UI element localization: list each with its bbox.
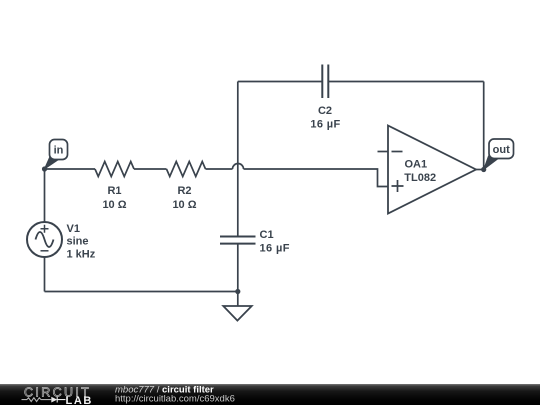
node out dot: [481, 167, 486, 172]
svg-text:16 µF: 16 µF: [260, 243, 290, 255]
ground: [223, 306, 251, 321]
wire hop to op-amp plus input: [244, 169, 389, 187]
svg-text:in: in: [54, 145, 64, 157]
wire op-amp output to node out: [476, 169, 484, 171]
wire stub op-amp minus input: [378, 151, 389, 153]
op-amp minus glyph: [392, 151, 403, 153]
wire from node in to R1: [45, 168, 96, 170]
svg-text:10 Ω: 10 Ω: [172, 199, 196, 211]
wire node to ground: [237, 292, 239, 307]
svg-text:http://circuitlab.com/c69xdk6: http://circuitlab.com/c69xdk6: [115, 393, 235, 404]
voltage source V1: [27, 222, 62, 257]
wire node in down to V1 top: [44, 169, 46, 222]
op-amp OA1: [388, 126, 476, 214]
svg-text:R2: R2: [177, 185, 191, 197]
svg-text:C2: C2: [318, 105, 332, 117]
svg-text:TL082: TL082: [404, 172, 436, 184]
wire mid vertical upper segment: [237, 82, 239, 237]
op-amp plus glyph: [392, 180, 404, 192]
svg-text:16 µF: 16 µF: [310, 118, 340, 130]
resistor R1: [95, 162, 134, 177]
wire bottom horizontal: [45, 291, 238, 293]
wire hop over vertical net: [233, 164, 244, 170]
wire top left to C2: [238, 81, 322, 83]
wire V1 bottom down: [44, 257, 46, 292]
node in flag: [45, 140, 68, 170]
wire R1 to R2: [134, 168, 167, 170]
CircuitLab logo waveform: [22, 397, 66, 403]
resistor R2: [167, 162, 206, 177]
svg-text:OA1: OA1: [405, 159, 428, 171]
wire C2 to right corner: [328, 81, 483, 83]
svg-text:V1: V1: [67, 223, 80, 235]
capacitor C1: [220, 237, 256, 244]
svg-text:out: out: [493, 144, 510, 156]
node in dot: [42, 166, 47, 171]
wire R2 to hop: [206, 168, 233, 170]
wire right vertical down to output: [483, 82, 485, 170]
svg-text:LAB: LAB: [66, 395, 93, 405]
wire C1 bottom to node: [237, 244, 239, 292]
svg-text:1 kHz: 1 kHz: [67, 249, 96, 261]
footer bar: [0, 384, 540, 405]
svg-text:sine: sine: [67, 236, 89, 248]
svg-text:10 Ω: 10 Ω: [102, 199, 126, 211]
node bottom junction dot: [235, 289, 240, 294]
node out flag: [484, 139, 514, 170]
capacitor C2: [322, 65, 328, 99]
svg-text:C1: C1: [260, 229, 274, 241]
svg-text:R1: R1: [107, 185, 121, 197]
